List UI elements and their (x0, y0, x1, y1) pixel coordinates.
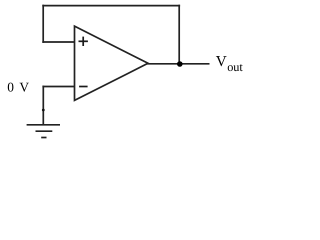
wire output (147, 63, 210, 65)
node label 0 V (7, 80, 29, 95)
pin label + (noninverting) (79, 37, 88, 46)
ground (27, 125, 60, 138)
wire ground lead vertical (42, 86, 44, 125)
wire inverting input lead (42, 86, 74, 88)
svg-text:V: V (19, 80, 29, 95)
svg-text:V: V (216, 53, 227, 70)
wire feedback left vertical (42, 5, 44, 43)
wire feedback top horizontal (42, 5, 180, 7)
node junction dot on ground lead (42, 109, 45, 112)
svg-text:out: out (227, 60, 243, 74)
wire noninverting input lead (42, 41, 74, 43)
wire feedback right vertical (178, 5, 180, 64)
svg-text:0: 0 (7, 80, 14, 95)
node label Vout (216, 53, 244, 74)
pin label - (inverting) (79, 86, 88, 88)
node output junction (177, 61, 183, 67)
op-amp U1 (75, 26, 149, 100)
